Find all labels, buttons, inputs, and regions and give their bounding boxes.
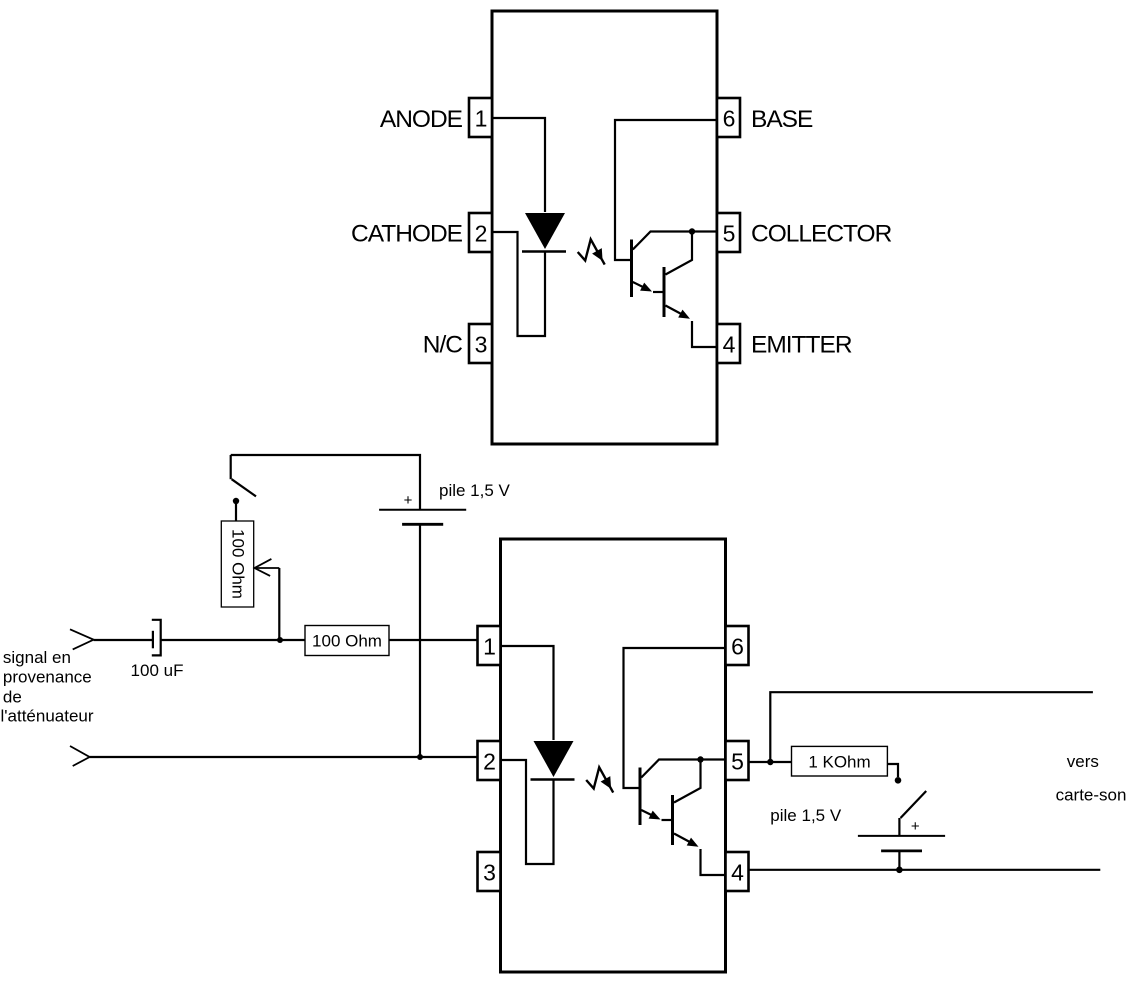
U2 pin 1	[478, 626, 501, 665]
wire pin 5 of U2 to R3	[749, 761, 792, 763]
svg-text:EMITTER: EMITTER	[751, 332, 852, 359]
U1 pin 5	[717, 213, 740, 252]
transistor Q1 (U2)	[640, 760, 701, 826]
svg-text:100 uF: 100 uF	[131, 661, 184, 680]
light emission arrow	[586, 767, 613, 792]
svg-text:3: 3	[475, 332, 488, 358]
node switch SW2 contact dot	[895, 777, 902, 784]
wire Q2 emitter to pin 4	[701, 849, 726, 875]
transistor Q1 (U1)	[632, 232, 693, 298]
U1 pin 1	[469, 98, 492, 137]
svg-text:1: 1	[483, 634, 496, 660]
wire pin 1 to LED anode	[493, 118, 545, 212]
battery BT2 pile 1,5 V	[858, 836, 945, 851]
node Q1 collector junction dot	[697, 756, 703, 762]
svg-text:100 Ohm: 100 Ohm	[229, 529, 248, 599]
svg-text:5: 5	[723, 221, 736, 247]
svg-text:1 KOhm: 1 KOhm	[808, 753, 870, 772]
U1 pin 6	[717, 98, 740, 137]
svg-text:vers: vers	[1067, 752, 1099, 771]
LED D (U2)	[531, 741, 575, 780]
U2 pin 6	[726, 626, 749, 665]
svg-text:+: +	[911, 818, 920, 835]
svg-text:4: 4	[723, 332, 736, 358]
input arrow signal	[70, 629, 94, 649]
node junction dot (BT1 / input 2)	[417, 754, 423, 760]
svg-text:ANODE: ANODE	[380, 106, 463, 133]
wire LED cathode to pin 2	[502, 760, 554, 864]
U1 pin 4	[717, 324, 740, 363]
svg-text:2: 2	[475, 221, 488, 247]
wire pin 1 to LED anode	[502, 646, 554, 740]
wire Q1 emitter to Q2 base	[662, 819, 673, 821]
wire Q2 emitter to pin 4	[692, 321, 717, 347]
svg-text:provenance: provenance	[3, 668, 92, 687]
U1 pin 2	[469, 213, 492, 252]
U2 pin 5	[726, 741, 749, 780]
optocoupler U2 body	[501, 539, 726, 972]
svg-text:3: 3	[483, 860, 496, 886]
svg-text:5: 5	[731, 749, 744, 775]
svg-text:carte-son: carte-son	[1056, 785, 1127, 804]
switch SW1	[231, 455, 256, 496]
LED D (U1)	[522, 213, 566, 252]
transistor Q2 (U1)	[664, 232, 692, 319]
U2 pin 2	[478, 741, 501, 780]
svg-text:6: 6	[731, 634, 744, 660]
node junction dot (BT2 / pin 4)	[896, 867, 903, 874]
wire pin 5 node to upper output (vers carte-son)	[770, 692, 1093, 762]
svg-text:100 Ohm: 100 Ohm	[312, 632, 382, 651]
wire Q1 emitter to Q2 base	[653, 291, 664, 293]
svg-text:COLLECTOR: COLLECTOR	[751, 221, 892, 248]
svg-text:signal en: signal en	[3, 648, 71, 667]
wire wiper to signal node	[278, 568, 280, 640]
svg-text:6: 6	[723, 106, 736, 132]
label signal en provenance de l'atténuateur	[1, 648, 94, 726]
potentiometer R1 100 Ohm	[221, 521, 253, 607]
wire R3 to switch SW2	[887, 764, 898, 777]
node switch SW1 contact dot	[233, 498, 239, 504]
svg-text:BASE: BASE	[751, 106, 813, 133]
wire BT2 negative to pin 4 net	[898, 851, 900, 870]
wire capacitor to R2	[161, 639, 305, 641]
U1 pin 3	[469, 324, 492, 363]
optocoupler U1 body	[492, 11, 717, 444]
battery BT1 pile 1,5 V	[379, 510, 466, 525]
wire R2 to pin 1 of U2	[389, 639, 478, 641]
node pin 5 junction dot	[767, 759, 773, 765]
transistor Q2 (U2)	[673, 760, 701, 847]
wire LED cathode to pin 2	[493, 232, 545, 336]
node junction dot (wiper/signal)	[277, 637, 283, 643]
svg-text:2: 2	[483, 749, 496, 775]
wire pin 6 to Q1 base	[624, 648, 726, 788]
wiper arrow of R1	[255, 559, 280, 576]
resistor R2 100 Ohm	[305, 626, 389, 656]
switch SW2	[899, 791, 926, 836]
capacitor C1 100 uF	[152, 620, 161, 656]
light emission arrow	[578, 239, 605, 264]
wire collector node to pin 5	[692, 230, 717, 232]
wire input 1 to capacitor	[94, 639, 152, 641]
input arrow 2	[70, 746, 90, 766]
U2 pin 3	[478, 852, 501, 891]
svg-text:pile 1,5 V: pile 1,5 V	[770, 806, 842, 825]
svg-text:de: de	[3, 688, 22, 707]
wire pin 6 to Q1 base	[615, 120, 717, 260]
wire switch to battery BT1	[231, 455, 420, 510]
node Q1 collector junction dot	[689, 228, 695, 234]
svg-text:N/C: N/C	[423, 332, 463, 359]
svg-text:l'atténuateur: l'atténuateur	[1, 707, 94, 726]
svg-text:CATHODE: CATHODE	[351, 221, 463, 248]
wire R1 top to switch contact	[235, 502, 237, 522]
svg-text:pile 1,5 V: pile 1,5 V	[439, 481, 511, 500]
svg-text:4: 4	[731, 860, 744, 886]
svg-text:1: 1	[475, 106, 488, 132]
resistor R3 1 KOhm	[792, 746, 888, 776]
wire input 2 to pin 2 of U2	[90, 756, 478, 758]
U2 pin 4	[726, 852, 749, 891]
wire collector node to pin 5	[701, 758, 726, 760]
wire BT1 negative to input 2 net	[419, 524, 421, 757]
wire pin 4 of U2 to lower output	[749, 869, 1101, 871]
svg-text:+: +	[404, 492, 413, 509]
